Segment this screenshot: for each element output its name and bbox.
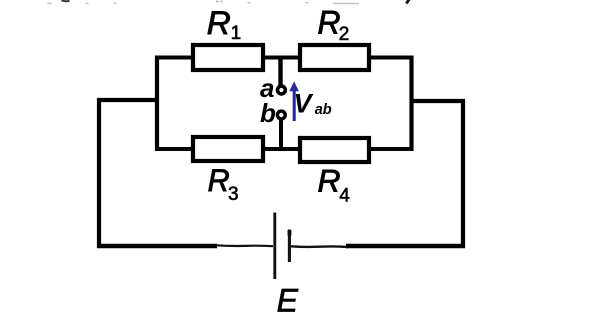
- wire: bottom thin segment left of battery: [216, 244, 273, 247]
- resistor R3: [193, 137, 263, 161]
- cut-off text fragments (top edge): [48, 0, 410, 4]
- wire: outer left vertical: [97, 98, 101, 248]
- svg-text:R: R: [207, 5, 231, 41]
- wire: left connector horizontal: [97, 98, 159, 102]
- wire: outer right vertical: [461, 99, 465, 248]
- svg-text:1: 1: [231, 23, 242, 44]
- battery E: long plate (left): [273, 213, 276, 280]
- wire: right connector horizontal: [410, 99, 466, 103]
- wire: bottom thin segment right of battery: [291, 245, 348, 248]
- resistor R1: [193, 45, 263, 70]
- node b terminal circle: [277, 111, 285, 119]
- svg-text:R: R: [318, 163, 341, 199]
- svg-text:R: R: [318, 5, 341, 41]
- wire: middle vertical lower (from node b): [279, 118, 283, 151]
- svg-text:E: E: [277, 282, 299, 318]
- svg-text:4: 4: [339, 186, 350, 207]
- svg-text:ab: ab: [315, 102, 332, 118]
- svg-text:V: V: [294, 88, 314, 118]
- node a terminal circle: [278, 86, 286, 94]
- wire: bridge bottom horizontal: [155, 147, 414, 151]
- wire: bridge right vertical: [409, 56, 413, 152]
- svg-text:R: R: [208, 162, 230, 198]
- wire: bridge left vertical: [155, 56, 159, 152]
- svg-text:b: b: [260, 98, 276, 128]
- wire: bottom right thick segment: [346, 244, 465, 248]
- arrow Vab (blue, pointing up): [289, 82, 299, 122]
- resistor R2: [300, 45, 369, 70]
- wire: bridge top horizontal: [155, 56, 414, 60]
- svg-text:2: 2: [339, 24, 350, 45]
- svg-text:3: 3: [228, 184, 239, 205]
- wire: bottom left thick segment: [97, 244, 217, 248]
- battery E: short plate (right): [288, 230, 291, 263]
- wire: middle vertical upper (to node a): [278, 58, 282, 87]
- resistor R4: [300, 138, 369, 162]
